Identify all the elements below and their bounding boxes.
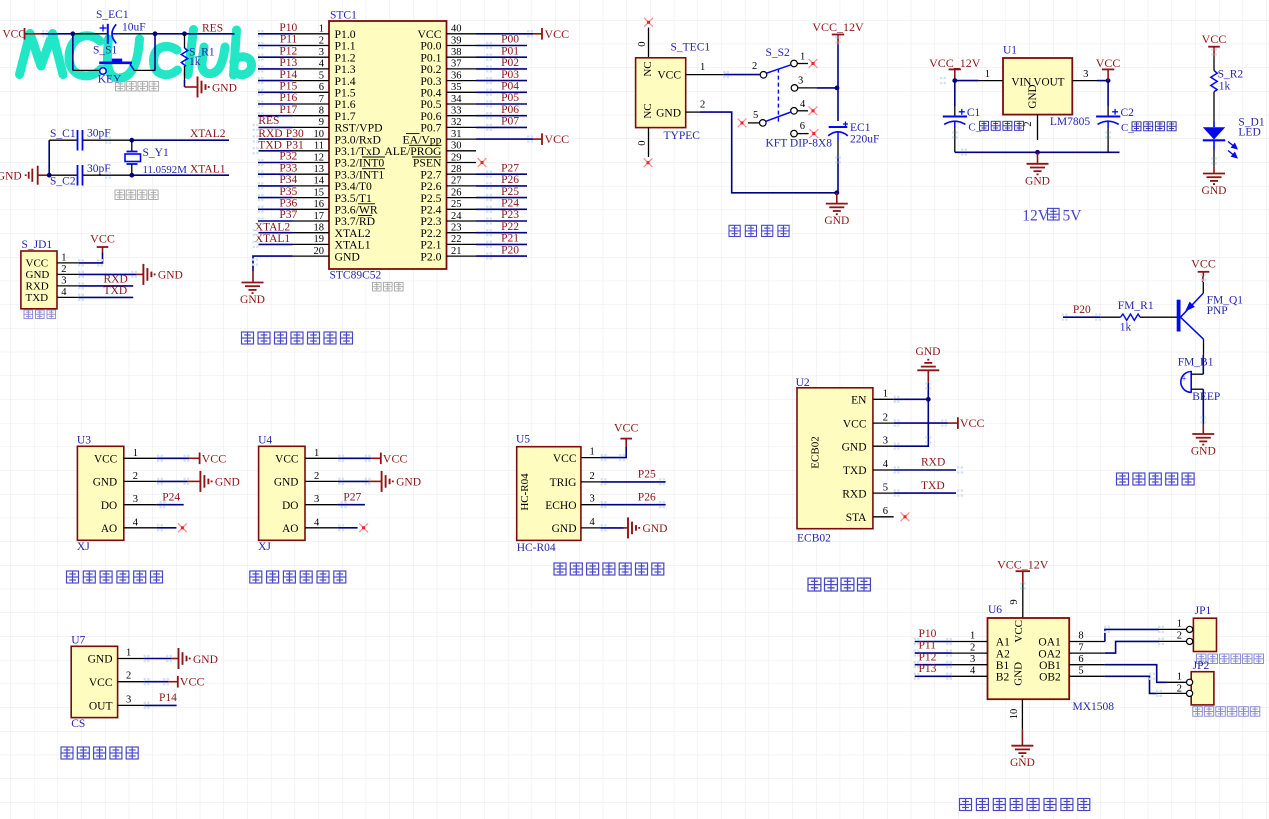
net label P14 bbox=[279, 69, 297, 81]
svg-text:P20: P20 bbox=[501, 244, 519, 256]
net label XTAL1 (pin19) bbox=[255, 233, 291, 245]
svg-text:VCC: VCC bbox=[1202, 32, 1227, 46]
net label RXD P30 bbox=[258, 128, 304, 140]
svg-text:GND: GND bbox=[193, 654, 218, 666]
power port VCC (U2) bbox=[958, 416, 985, 430]
svg-text:32: 32 bbox=[451, 117, 462, 128]
wire P3 bus left bbox=[258, 163, 293, 222]
svg-text:2: 2 bbox=[752, 61, 757, 72]
ground GND (U6) bbox=[1011, 746, 1033, 757]
svg-text:S_TEC1: S_TEC1 bbox=[671, 42, 711, 54]
power port VCC (buzzer) bbox=[1191, 257, 1216, 283]
svg-text:GND: GND bbox=[93, 477, 117, 489]
net label P11 bbox=[280, 34, 298, 46]
svg-text:S_S2: S_S2 bbox=[766, 47, 791, 59]
svg-text:1: 1 bbox=[800, 52, 805, 63]
svg-text:GND: GND bbox=[158, 270, 183, 282]
power port VCC (7805) bbox=[1096, 56, 1121, 81]
IC U6 MX1508 bbox=[952, 604, 1114, 729]
svg-text:3: 3 bbox=[798, 76, 803, 87]
svg-text:21: 21 bbox=[451, 246, 462, 257]
svg-text:B2: B2 bbox=[996, 672, 1010, 684]
caption dianyuan-dianlu bbox=[729, 225, 789, 236]
svg-text:14: 14 bbox=[314, 176, 325, 187]
svg-text:3: 3 bbox=[314, 494, 319, 505]
svg-text:6: 6 bbox=[319, 82, 324, 93]
svg-text:P05: P05 bbox=[501, 92, 519, 104]
wire TXD pin11 bbox=[259, 150, 293, 152]
svg-text:VCC: VCC bbox=[202, 451, 227, 465]
svg-text:GND: GND bbox=[1025, 175, 1050, 187]
diode S_D1 LED bbox=[1203, 117, 1265, 158]
node res junction bbox=[153, 31, 158, 36]
wire P1 bus left bbox=[258, 34, 293, 116]
svg-text:P27: P27 bbox=[501, 162, 519, 174]
svg-text:ECHO: ECHO bbox=[545, 500, 576, 512]
wire P2 bus right bbox=[476, 174, 527, 256]
svg-text:37: 37 bbox=[451, 59, 462, 70]
ground GND (power) bbox=[826, 204, 848, 215]
net label P27 bbox=[343, 491, 361, 503]
svg-text:GND: GND bbox=[552, 523, 577, 535]
svg-text:2: 2 bbox=[126, 671, 131, 682]
svg-text:GND: GND bbox=[1013, 662, 1025, 686]
svg-text:TYPEC: TYPEC bbox=[664, 130, 701, 142]
svg-text:STC1: STC1 bbox=[330, 10, 357, 22]
capacitor C1 bbox=[943, 81, 981, 153]
wire U3 gnd bbox=[157, 480, 201, 482]
svg-text:ECB02: ECB02 bbox=[810, 436, 822, 468]
caption cesu bbox=[61, 747, 138, 759]
svg-text:S_EC1: S_EC1 bbox=[96, 9, 129, 21]
svg-text:VCC: VCC bbox=[89, 677, 113, 689]
svg-text:VCC: VCC bbox=[94, 454, 117, 466]
svg-text:4: 4 bbox=[970, 666, 976, 677]
svg-text:P11: P11 bbox=[919, 640, 937, 652]
svg-text:NC: NC bbox=[642, 103, 654, 118]
svg-text:VCC_12V: VCC_12V bbox=[997, 558, 1049, 572]
svg-text:+: + bbox=[1181, 374, 1186, 384]
svg-text:U4: U4 bbox=[258, 434, 272, 446]
value label C1 dianjiedianrong bbox=[968, 121, 1023, 133]
svg-text:P2.0: P2.0 bbox=[420, 250, 441, 263]
svg-text:12V: 12V bbox=[1022, 208, 1049, 225]
svg-text:GND: GND bbox=[88, 654, 113, 666]
net label P27 bbox=[501, 162, 519, 174]
svg-text:220uF: 220uF bbox=[850, 133, 879, 145]
svg-text:P26: P26 bbox=[638, 491, 656, 503]
svg-text:8: 8 bbox=[1078, 631, 1083, 642]
node 7805 out junction bbox=[1106, 78, 1111, 83]
ground GND (LED) bbox=[1203, 174, 1225, 185]
wire XTAL1 bbox=[132, 174, 229, 176]
capacitor EC1 220uF bbox=[828, 122, 879, 157]
wire U5 echo bbox=[601, 504, 666, 506]
svg-text:AO: AO bbox=[282, 523, 298, 535]
node crystal gnd junction bbox=[47, 173, 52, 178]
no-erc U4 ao bbox=[359, 523, 368, 532]
svg-text:TXD: TXD bbox=[104, 285, 128, 297]
svg-text:11: 11 bbox=[314, 141, 324, 152]
no-erc switch pin1 bbox=[809, 59, 818, 68]
svg-text:GND: GND bbox=[656, 108, 681, 120]
wire XTAL2 pin18 bbox=[259, 232, 293, 234]
net label P01 bbox=[501, 45, 519, 57]
svg-text:2: 2 bbox=[590, 471, 595, 482]
svg-text:1: 1 bbox=[1177, 672, 1182, 683]
caption chaoshengbo bbox=[554, 563, 664, 575]
wire U2 txd bbox=[894, 469, 956, 471]
wire 7805 bottom bbox=[955, 151, 1120, 153]
svg-text:4: 4 bbox=[314, 517, 320, 528]
svg-text:2: 2 bbox=[1177, 684, 1182, 695]
svg-text:11.0592M: 11.0592M bbox=[143, 164, 188, 176]
svg-text:P01: P01 bbox=[501, 45, 519, 57]
wire led to gnd bbox=[1213, 150, 1215, 174]
no-erc switch pin4 bbox=[809, 106, 818, 115]
svg-text:JP1: JP1 bbox=[1195, 605, 1212, 617]
wire base bbox=[1160, 316, 1177, 318]
svg-text:P23: P23 bbox=[501, 209, 519, 221]
svg-text:P17: P17 bbox=[279, 104, 297, 116]
connector JP1 bbox=[1177, 605, 1217, 652]
svg-text:VCC: VCC bbox=[545, 27, 570, 41]
wire typec vcc to switch bbox=[724, 74, 760, 76]
svg-text:TXD: TXD bbox=[258, 140, 282, 152]
net label P20 bbox=[501, 244, 519, 256]
IC U3 XJ bbox=[77, 434, 157, 553]
svg-text:KFT DIP-8X8: KFT DIP-8X8 bbox=[766, 138, 833, 150]
svg-text:1: 1 bbox=[883, 389, 888, 400]
wire U5 vcc bbox=[601, 439, 627, 458]
net label P05 bbox=[501, 92, 519, 104]
svg-text:4: 4 bbox=[800, 99, 806, 110]
svg-text:TXD: TXD bbox=[843, 465, 867, 477]
svg-text:1: 1 bbox=[126, 648, 131, 659]
svg-text:P10: P10 bbox=[919, 628, 937, 640]
caption danpianji bbox=[373, 282, 404, 291]
capacitor C2 bbox=[1096, 81, 1134, 153]
svg-text:S_S1: S_S1 bbox=[93, 45, 118, 57]
svg-text:31: 31 bbox=[451, 129, 462, 140]
svg-text:5: 5 bbox=[319, 70, 324, 81]
watermark MCUclub logo bbox=[20, 30, 252, 79]
svg-text:P14: P14 bbox=[159, 692, 177, 704]
net label P14 bbox=[159, 692, 177, 704]
svg-text:GND: GND bbox=[335, 250, 360, 263]
wire junction down to key bbox=[72, 34, 74, 71]
net label P13 bbox=[279, 57, 297, 69]
net label XTAL2 bbox=[190, 128, 226, 140]
node xtal2 junction bbox=[129, 138, 134, 143]
wire U4 ao bbox=[338, 527, 358, 529]
svg-text:XTAL1: XTAL1 bbox=[190, 164, 226, 176]
svg-text:3: 3 bbox=[126, 694, 131, 705]
net label P02 bbox=[501, 57, 519, 69]
net label XTAL1 bbox=[190, 164, 226, 176]
resistor S_R1 1k bbox=[181, 34, 215, 80]
svg-text:P25: P25 bbox=[501, 186, 519, 198]
svg-text:15: 15 bbox=[314, 187, 325, 198]
node U2 en junction bbox=[926, 397, 931, 402]
svg-text:P25: P25 bbox=[638, 469, 656, 481]
svg-text:C2: C2 bbox=[1121, 107, 1135, 119]
svg-text:B1: B1 bbox=[996, 660, 1010, 672]
wire typec pin0 top bbox=[637, 28, 649, 58]
svg-text:PNP: PNP bbox=[1207, 305, 1228, 317]
svg-text:20: 20 bbox=[314, 246, 325, 257]
svg-text:XTAL2: XTAL2 bbox=[190, 128, 226, 140]
svg-text:P32: P32 bbox=[279, 151, 297, 163]
svg-text:30: 30 bbox=[451, 141, 462, 152]
no-erc U3 ao bbox=[178, 523, 187, 532]
node resistor junction bbox=[182, 31, 187, 36]
svg-text:3: 3 bbox=[1083, 69, 1088, 80]
net label P07 bbox=[501, 116, 519, 128]
wire U4 do bbox=[338, 504, 365, 506]
svg-text:35: 35 bbox=[451, 82, 462, 93]
svg-text:GND: GND bbox=[274, 477, 298, 489]
wire U2 vcc bbox=[894, 422, 958, 424]
ground GND (7805) bbox=[1027, 164, 1049, 175]
wire XTAL2 bbox=[132, 139, 229, 141]
svg-text:XTAL1: XTAL1 bbox=[255, 233, 291, 245]
connector S_JD1 bbox=[21, 239, 79, 309]
no-erc U2 sta bbox=[901, 512, 910, 521]
no-erc typec bottom bbox=[644, 158, 653, 167]
svg-text:RXD: RXD bbox=[842, 488, 866, 500]
svg-text:4: 4 bbox=[133, 517, 139, 528]
svg-text:P11: P11 bbox=[280, 34, 298, 46]
IC U2 ECB02 bbox=[796, 377, 894, 544]
net label P13 (U6) bbox=[919, 663, 937, 675]
net label P00 bbox=[501, 34, 519, 46]
net label XTAL2 (pin18) bbox=[255, 222, 291, 234]
wire RES pin9 bbox=[259, 126, 293, 128]
node 7805 in junction bbox=[952, 78, 957, 83]
ground GND (U7) bbox=[179, 648, 190, 669]
capacitor S_C2 30pF bbox=[49, 163, 132, 188]
net label P35 bbox=[279, 186, 297, 198]
wire JD1 vcc bbox=[79, 247, 103, 263]
svg-text:P34: P34 bbox=[279, 174, 297, 186]
svg-text:GND: GND bbox=[643, 523, 668, 535]
svg-text:3: 3 bbox=[590, 494, 595, 505]
svg-text:5V: 5V bbox=[1063, 208, 1083, 225]
value label C2 dianjiedianrong bbox=[1121, 122, 1176, 134]
net label TXD P31 bbox=[258, 140, 304, 152]
wire r2 to led bbox=[1213, 100, 1215, 122]
wire U2 gnd net bbox=[894, 383, 929, 446]
net label P10 (U6) bbox=[919, 628, 937, 640]
net label P03 bbox=[501, 69, 519, 81]
wire U3 vcc bbox=[157, 457, 200, 459]
svg-text:4: 4 bbox=[61, 287, 67, 298]
wire JD1 rxd bbox=[79, 285, 133, 287]
wire U7 out bbox=[144, 704, 176, 706]
svg-text:28: 28 bbox=[451, 164, 462, 175]
capacitor S_EC1 10uF bbox=[73, 9, 155, 44]
wire U6 pin9 bbox=[1009, 583, 1023, 618]
wire RXD pin10 bbox=[259, 138, 293, 140]
svg-text:EC1: EC1 bbox=[850, 122, 871, 134]
svg-text:GND: GND bbox=[824, 215, 849, 227]
wire U5 gnd bbox=[601, 527, 628, 529]
svg-text:VCC: VCC bbox=[553, 453, 577, 465]
off-grid markers bbox=[42, 30, 1217, 709]
svg-text:U3: U3 bbox=[77, 434, 91, 446]
svg-text:RXD: RXD bbox=[104, 273, 128, 285]
svg-text:GND: GND bbox=[215, 477, 240, 489]
caption 12Vto5V bbox=[1022, 208, 1082, 225]
svg-text:25: 25 bbox=[451, 199, 462, 210]
transistor FM_Q1 PNP bbox=[1177, 282, 1244, 355]
power port VCC (U3) bbox=[200, 451, 227, 465]
svg-text:12: 12 bbox=[314, 152, 325, 163]
wire key right up bbox=[154, 34, 156, 71]
svg-text:ECB02: ECB02 bbox=[797, 533, 831, 545]
wire P10 net bbox=[915, 641, 952, 643]
net label P24 bbox=[501, 198, 519, 210]
svg-text:1: 1 bbox=[314, 448, 319, 459]
wire U4 vcc bbox=[338, 457, 381, 459]
svg-text:P07: P07 bbox=[501, 116, 519, 128]
wire vin bbox=[955, 80, 979, 82]
net label RXD (U2) bbox=[921, 457, 945, 469]
svg-text:4: 4 bbox=[590, 517, 596, 528]
net label P24 bbox=[162, 491, 180, 503]
svg-text:VCC: VCC bbox=[275, 454, 298, 466]
svg-text:13: 13 bbox=[314, 164, 325, 175]
wire typec gnd path bbox=[700, 112, 837, 193]
svg-text:1k: 1k bbox=[1120, 322, 1132, 334]
svg-text:P35: P35 bbox=[279, 186, 297, 198]
svg-text:1: 1 bbox=[133, 448, 138, 459]
net label RES bbox=[202, 23, 223, 35]
ground GND (reset) bbox=[198, 77, 237, 98]
net label TXD (JD1) bbox=[104, 285, 128, 297]
svg-text:2: 2 bbox=[133, 471, 138, 482]
svg-text:HC-R04: HC-R04 bbox=[519, 473, 531, 511]
power port VCC (U5) bbox=[614, 420, 639, 438]
caption chazuo-1 bbox=[1197, 654, 1264, 664]
IC U4 XJ bbox=[258, 434, 338, 553]
net label P04 bbox=[501, 81, 519, 93]
svg-text:P15: P15 bbox=[279, 81, 297, 93]
svg-text:GND: GND bbox=[26, 269, 50, 281]
IC U7 CS bbox=[71, 634, 144, 729]
svg-text:10: 10 bbox=[314, 129, 325, 140]
svg-text:P21: P21 bbox=[501, 233, 519, 245]
svg-text:VCC_12V: VCC_12V bbox=[929, 56, 981, 70]
svg-text:6: 6 bbox=[1078, 654, 1083, 665]
svg-text:9: 9 bbox=[319, 117, 324, 128]
wire gnd up bbox=[48, 140, 50, 175]
svg-text:VCC: VCC bbox=[614, 420, 639, 434]
svg-text:22: 22 bbox=[451, 234, 462, 245]
switch S_S1 KEY bbox=[73, 45, 155, 86]
caption zhiliu-dianji bbox=[960, 799, 1090, 811]
resistor FM_R1 1k bbox=[1100, 300, 1160, 334]
svg-text:VCC: VCC bbox=[26, 258, 49, 270]
svg-text:5: 5 bbox=[883, 482, 888, 493]
wire switch3 to rail bbox=[817, 87, 837, 89]
svg-text:U5: U5 bbox=[516, 434, 530, 446]
wire P13 net bbox=[915, 675, 952, 677]
net label RES (pin9) bbox=[258, 115, 279, 127]
wire vout bbox=[1097, 80, 1108, 82]
svg-text:27: 27 bbox=[451, 176, 462, 187]
svg-text:TXD: TXD bbox=[921, 480, 945, 492]
wire buzzer to gnd bbox=[1202, 389, 1204, 434]
svg-text:GND: GND bbox=[1010, 757, 1035, 769]
net label P12 bbox=[279, 45, 297, 57]
svg-text:9: 9 bbox=[1009, 599, 1020, 604]
svg-text:29: 29 bbox=[451, 152, 462, 163]
svg-text:P14: P14 bbox=[279, 69, 297, 81]
svg-text:P26: P26 bbox=[501, 174, 519, 186]
svg-text:VCC: VCC bbox=[843, 418, 867, 430]
ground GND (STC) bbox=[242, 283, 264, 294]
svg-text:VCC_12V: VCC_12V bbox=[812, 20, 864, 34]
svg-text:24: 24 bbox=[451, 211, 462, 222]
svg-text:P13: P13 bbox=[919, 663, 937, 675]
svg-text:2: 2 bbox=[314, 471, 319, 482]
IC U1 LM7805 bbox=[979, 44, 1097, 140]
power port VCC (U4) bbox=[381, 451, 408, 465]
svg-text:FM_B1: FM_B1 bbox=[1178, 357, 1214, 369]
svg-text:P24: P24 bbox=[501, 198, 519, 210]
power port VCC (reset) bbox=[3, 28, 42, 41]
wire U7 vcc bbox=[144, 681, 177, 683]
svg-text:GND: GND bbox=[240, 294, 265, 306]
svg-text:P03: P03 bbox=[501, 69, 519, 81]
net label P17 bbox=[279, 104, 297, 116]
svg-text:2: 2 bbox=[970, 642, 975, 653]
connector S_TEC1 TYPEC bbox=[636, 42, 724, 158]
svg-text:1: 1 bbox=[590, 447, 595, 458]
svg-text:TXD: TXD bbox=[26, 292, 49, 304]
svg-text:P12: P12 bbox=[919, 651, 937, 663]
svg-text:P30: P30 bbox=[286, 128, 304, 140]
IC U5 HC-R04 bbox=[516, 434, 601, 555]
svg-text:GND: GND bbox=[396, 477, 421, 489]
net label P20 bbox=[1073, 304, 1091, 316]
svg-text:JP2: JP2 bbox=[1193, 660, 1210, 672]
svg-text:P16: P16 bbox=[279, 92, 297, 104]
svg-text:0: 0 bbox=[637, 141, 648, 146]
ground GND (U4) bbox=[382, 471, 393, 492]
svg-text:P37: P37 bbox=[279, 209, 297, 221]
IC STC1 STC89C52 bbox=[293, 10, 477, 282]
caption hongwai-2 bbox=[250, 571, 346, 583]
svg-text:1: 1 bbox=[319, 24, 324, 35]
wire rail to gnd bbox=[836, 193, 838, 204]
svg-text:CS: CS bbox=[71, 718, 85, 730]
no-erc pin29 bbox=[478, 158, 487, 167]
net label P21 bbox=[501, 233, 519, 245]
wire 12v rail upper bbox=[837, 44, 839, 121]
net label P15 bbox=[279, 81, 297, 93]
svg-text:GND: GND bbox=[916, 346, 941, 358]
svg-text:STC89C52: STC89C52 bbox=[330, 270, 382, 282]
ground GND (U3) bbox=[200, 471, 211, 492]
svg-text:2: 2 bbox=[61, 264, 66, 275]
wire OB1 to JP2-1 bbox=[1105, 665, 1187, 683]
caption anjian-fuwei bbox=[116, 82, 159, 92]
caption chazuo-2 bbox=[1193, 707, 1260, 717]
svg-text:VCC: VCC bbox=[1096, 56, 1121, 70]
